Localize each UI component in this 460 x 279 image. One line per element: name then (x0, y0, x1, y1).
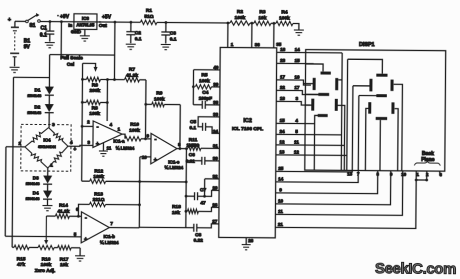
svg-text:IC2: IC2 (243, 118, 251, 124)
svg-text:17: 17 (280, 74, 286, 79)
svg-text:17: 17 (294, 85, 300, 90)
svg-text:16: 16 (280, 47, 286, 52)
svg-text:C1: C1 (40, 26, 47, 32)
svg-text:R6: R6 (92, 82, 99, 88)
svg-text:100pF: 100pF (199, 96, 213, 101)
svg-text:D4: D4 (33, 190, 39, 195)
svg-text:33: 33 (213, 112, 219, 117)
svg-text:¼ LM324: ¼ LM324 (100, 240, 119, 245)
svg-text:41.2k: 41.2k (57, 209, 69, 215)
svg-text:0.1: 0.1 (135, 36, 142, 42)
svg-text:10: 10 (401, 172, 406, 177)
svg-text:-: - (85, 216, 87, 222)
svg-text:C3: C3 (170, 31, 177, 37)
svg-text:23: 23 (280, 58, 286, 63)
svg-text:0.01: 0.01 (186, 159, 195, 164)
svg-text:0.1: 0.1 (40, 33, 47, 39)
svg-text:30: 30 (213, 156, 219, 161)
svg-text:200k: 200k (90, 88, 101, 94)
svg-text:47: 47 (200, 200, 206, 206)
svg-text:R17: R17 (60, 257, 69, 263)
svg-text:R9: R9 (156, 90, 163, 96)
svg-text:28: 28 (212, 202, 218, 207)
svg-text:13: 13 (279, 149, 285, 154)
svg-text:R4: R4 (281, 9, 288, 15)
svg-text:R14: R14 (59, 203, 68, 209)
svg-text:0.1: 0.1 (189, 125, 196, 131)
svg-text:+: + (73, 147, 76, 153)
svg-text:C6: C6 (189, 152, 196, 158)
svg-text:C7: C7 (200, 187, 207, 193)
svg-text:1N4148: 1N4148 (27, 93, 42, 98)
svg-text:51Ω: 51Ω (144, 14, 153, 20)
svg-text:21: 21 (278, 222, 284, 227)
svg-text:9V: 9V (24, 44, 31, 50)
svg-text:15: 15 (280, 118, 286, 123)
svg-text:100k: 100k (199, 78, 210, 84)
svg-text:1MEG: 1MEG (186, 143, 199, 148)
svg-text:14: 14 (278, 176, 284, 181)
svg-text:36: 36 (255, 42, 261, 47)
svg-text:100k: 100k (154, 96, 165, 102)
svg-text:C2: C2 (135, 30, 142, 36)
svg-text:1N4148: 1N4148 (27, 110, 42, 115)
svg-text:22: 22 (280, 85, 286, 90)
svg-text:C8: C8 (195, 232, 202, 238)
svg-text:10k: 10k (60, 262, 68, 268)
svg-text:100k: 100k (129, 128, 140, 134)
svg-text:SeekIC.com: SeekIC.com (375, 260, 456, 278)
svg-text:D2: D2 (34, 104, 40, 109)
svg-text:12: 12 (279, 139, 285, 144)
svg-text:DISP1: DISP1 (359, 42, 375, 48)
svg-text:15: 15 (295, 58, 301, 63)
svg-text:-: - (97, 125, 99, 131)
svg-text:R1: R1 (146, 8, 153, 14)
svg-text:47k: 47k (17, 262, 25, 268)
svg-text:27: 27 (212, 219, 218, 224)
svg-text:S1: S1 (29, 23, 35, 29)
svg-text:34: 34 (213, 129, 219, 134)
svg-text:-: - (154, 137, 156, 143)
svg-text:Full Scale: Full Scale (60, 55, 83, 61)
svg-text:11: 11 (107, 146, 112, 151)
svg-text:R3: R3 (259, 9, 266, 15)
svg-text:AN78L05: AN78L05 (76, 22, 95, 27)
svg-text:13: 13 (347, 171, 352, 176)
svg-text:40: 40 (213, 65, 219, 70)
svg-text:ICL 7106 CPL: ICL 7106 CPL (232, 126, 263, 132)
svg-text:+9V: +9V (60, 14, 70, 20)
svg-text:R10: R10 (130, 122, 139, 128)
svg-text:R13: R13 (94, 191, 103, 197)
svg-text:10: 10 (278, 198, 284, 203)
svg-text:IC1-a: IC1-a (113, 139, 125, 144)
svg-text:0.22: 0.22 (194, 238, 204, 244)
svg-text:100k: 100k (41, 262, 52, 268)
svg-text:221Ω: 221Ω (93, 197, 105, 203)
svg-text:IC3: IC3 (82, 16, 90, 21)
svg-text:+: + (96, 141, 99, 147)
svg-text:R12: R12 (94, 168, 103, 174)
svg-text:24: 24 (279, 129, 285, 134)
svg-text:32: 32 (213, 174, 219, 179)
svg-text:100k: 100k (235, 15, 246, 21)
svg-text:¼ LM324: ¼ LM324 (116, 146, 135, 151)
svg-text:Zero Adj.: Zero Adj. (35, 268, 56, 274)
svg-text:39: 39 (213, 82, 219, 87)
svg-text:10k: 10k (258, 15, 266, 21)
svg-text:C5: C5 (190, 119, 197, 125)
svg-text:+: + (154, 157, 157, 163)
svg-text:R18: R18 (172, 204, 181, 210)
svg-text:+5V: +5V (102, 14, 112, 20)
svg-text:R8: R8 (92, 105, 99, 111)
svg-text:R2: R2 (237, 9, 244, 15)
svg-text:+: + (84, 237, 87, 243)
svg-text:D3: D3 (33, 175, 39, 180)
svg-text:R7: R7 (129, 67, 136, 73)
svg-text:41.2k: 41.2k (126, 73, 138, 79)
svg-text:R16: R16 (42, 257, 51, 263)
svg-text:18: 18 (280, 96, 286, 101)
svg-text:GND: GND (71, 29, 82, 34)
svg-text:IC1-b: IC1-b (103, 234, 115, 239)
svg-text:1N4148: 1N4148 (25, 196, 40, 201)
svg-text:IC1-c: IC1-c (168, 160, 180, 165)
svg-text:¼ LM324: ¼ LM324 (164, 165, 183, 170)
svg-text:0.1: 0.1 (170, 37, 177, 43)
svg-text:R5: R5 (201, 72, 208, 78)
svg-text:IC4: IC4 (43, 138, 51, 143)
svg-text:R15: R15 (17, 256, 26, 262)
svg-text:Out: Out (99, 23, 107, 28)
svg-text:14: 14 (295, 47, 301, 52)
svg-text:In: In (68, 23, 72, 28)
svg-text:1N4148: 1N4148 (26, 181, 41, 186)
svg-text:100k: 100k (93, 174, 104, 180)
svg-text:26: 26 (248, 238, 254, 243)
svg-text:12: 12 (294, 150, 300, 155)
svg-text:100k: 100k (89, 111, 100, 117)
svg-text:25: 25 (278, 166, 284, 171)
svg-text:31: 31 (213, 143, 219, 148)
svg-text:11: 11 (278, 209, 283, 214)
svg-text:11: 11 (294, 140, 299, 145)
svg-text:Cal: Cal (67, 62, 75, 68)
svg-text:38: 38 (213, 100, 219, 105)
svg-text:16: 16 (294, 75, 300, 80)
svg-text:29: 29 (212, 185, 218, 190)
svg-text:D1: D1 (34, 87, 40, 92)
svg-text:10k: 10k (172, 210, 180, 216)
svg-text:+: + (8, 17, 11, 23)
svg-text:SX100DN: SX100DN (38, 144, 56, 149)
svg-text:100k: 100k (279, 15, 290, 21)
